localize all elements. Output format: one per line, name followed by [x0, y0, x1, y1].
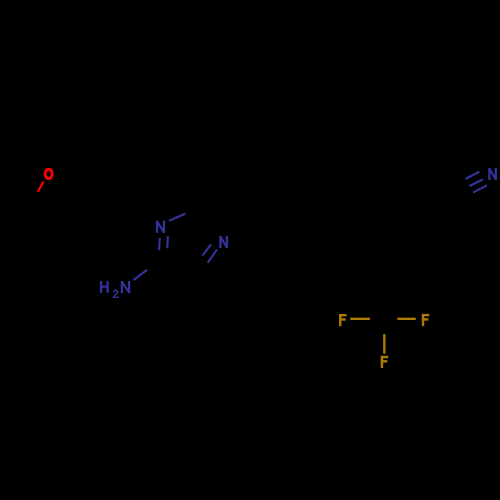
bond N3=C4 double (blue half): [203, 244, 217, 262]
atom O (methoxy oxygen): [45, 169, 52, 178]
bond C-F left (orange half): [350, 318, 370, 320]
svg-text:2: 2: [112, 287, 119, 301]
atom F left: [339, 314, 346, 326]
bond C-F right (orange half): [397, 318, 415, 320]
atom N1 (imidazole N): [157, 221, 164, 233]
bond O-CH3 (red half): [38, 182, 44, 192]
bond H2N-C5 (blue half): [134, 270, 147, 280]
atom H2N (amine): [101, 281, 108, 293]
bond C-F bottom (orange half): [383, 334, 385, 354]
atom N3 (imidazole N): [220, 236, 227, 248]
bond N1=C5 double (blue half): [159, 236, 168, 250]
atom F right: [422, 314, 429, 326]
bond C#N triple (blue half, 3 lines): [465, 172, 487, 193]
atom F bottom: [381, 356, 388, 368]
atom N (nitrile): [489, 168, 495, 180]
bond N1-C2 (blue half): [169, 214, 185, 221]
